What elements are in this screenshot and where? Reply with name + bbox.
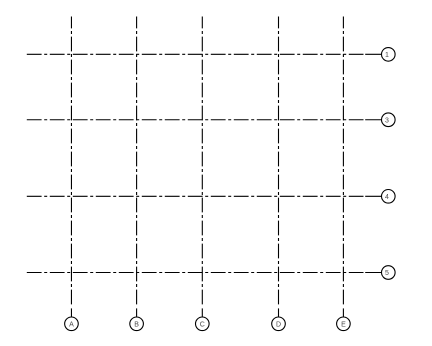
grid bubble 5 — [382, 266, 396, 280]
grid line A (vertical, dash-dot) — [70, 17, 72, 317]
grid line 5 (horizontal, dash-dot) — [27, 272, 382, 274]
grid bubble C — [196, 317, 210, 331]
grid bubble B — [130, 317, 144, 331]
grid line 3 (horizontal, dash-dot) — [27, 119, 382, 121]
svg-text:3: 3 — [385, 117, 389, 124]
svg-text:1: 1 — [385, 52, 389, 59]
grid bubble 1 — [382, 48, 396, 62]
grid bubble D — [272, 317, 286, 331]
grid bubble E — [337, 317, 351, 331]
grid line 1 (horizontal, dash-dot) — [27, 53, 382, 55]
svg-text:A: A — [69, 321, 74, 328]
grid bubble 3 — [382, 113, 396, 127]
svg-text:4: 4 — [385, 194, 389, 201]
grid line B (vertical, dash-dot) — [136, 17, 138, 317]
svg-text:E: E — [341, 321, 346, 328]
grid bubble A — [65, 317, 79, 331]
svg-text:B: B — [134, 321, 139, 328]
grid bubble 4 — [382, 190, 396, 204]
grid line E (vertical, dash-dot) — [342, 17, 344, 317]
svg-text:5: 5 — [385, 270, 389, 277]
grid line 4 (horizontal, dash-dot) — [27, 195, 382, 197]
grid line C (vertical, dash-dot) — [201, 17, 203, 317]
svg-text:D: D — [276, 321, 281, 328]
svg-text:C: C — [200, 321, 205, 328]
grid line D (vertical, dash-dot) — [278, 17, 280, 317]
